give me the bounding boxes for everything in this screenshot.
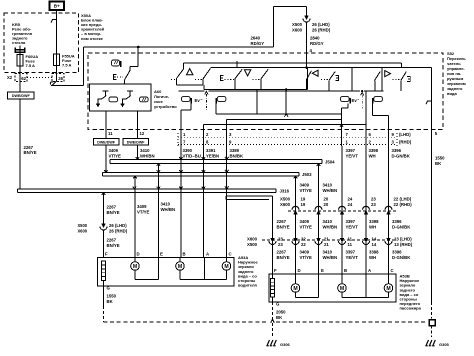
svg-text:3389: 3389 xyxy=(230,148,240,153)
svg-text:3398: 3398 xyxy=(369,219,379,224)
svg-text:M: M xyxy=(340,286,344,292)
svg-text:BN/YE: BN/YE xyxy=(277,224,290,229)
svg-text:3396: 3396 xyxy=(392,219,402,224)
svg-text:M: M xyxy=(293,286,297,292)
svg-text:26 (RHD): 26 (RHD) xyxy=(109,229,128,234)
svg-text:23: 23 xyxy=(278,242,283,247)
svg-text:BN/YE: BN/YE xyxy=(107,243,120,248)
svg-text:A: A xyxy=(206,251,209,256)
svg-text:VT/YE: VT/YE xyxy=(300,224,313,229)
svg-text:VT/D–BU: VT/D–BU xyxy=(183,154,201,159)
svg-text:BK: BK xyxy=(276,315,283,320)
svg-text:22: 22 xyxy=(301,242,306,247)
svg-text:3409: 3409 xyxy=(137,204,147,209)
svg-text:22 (LHD): 22 (LHD) xyxy=(394,197,412,202)
svg-text:X500: X500 xyxy=(247,242,258,247)
svg-text:3396: 3396 xyxy=(392,250,402,255)
svg-text:(LHD): (LHD) xyxy=(399,132,411,137)
svg-text:20: 20 xyxy=(324,202,329,207)
svg-text:Еv: Еv xyxy=(352,98,358,103)
svg-text:X500: X500 xyxy=(292,22,303,27)
svg-text:E: E xyxy=(160,251,163,256)
svg-text:3396: 3396 xyxy=(392,148,402,153)
svg-text:J504: J504 xyxy=(325,160,335,165)
svg-text:2050: 2050 xyxy=(276,310,286,315)
svg-text:D: D xyxy=(137,251,140,256)
svg-text:BK: BK xyxy=(435,161,442,166)
svg-text:2267: 2267 xyxy=(107,238,117,243)
svg-text:3391: 3391 xyxy=(206,148,216,153)
svg-text:YE/VT: YE/VT xyxy=(346,224,359,229)
svg-text:BN/YE: BN/YE xyxy=(277,255,290,260)
svg-text:12: 12 xyxy=(140,131,145,136)
svg-text:2267: 2267 xyxy=(107,205,117,210)
svg-text:ном отсеке: ном отсеке xyxy=(81,36,104,41)
svg-text:3397: 3397 xyxy=(346,148,356,153)
svg-text:3410: 3410 xyxy=(140,148,150,153)
svg-text:2640: 2640 xyxy=(251,36,261,41)
svg-text:X2: X2 xyxy=(7,75,13,80)
svg-text:D-GN/BK: D-GN/BK xyxy=(392,224,411,229)
svg-text:B: B xyxy=(183,251,186,256)
svg-text:14: 14 xyxy=(372,242,377,247)
svg-text:D: D xyxy=(298,268,301,273)
svg-text:M: M xyxy=(178,264,182,270)
svg-text:X600: X600 xyxy=(247,237,258,242)
svg-text:J503: J503 xyxy=(302,172,312,177)
svg-text:3398: 3398 xyxy=(369,250,379,255)
svg-text:VT/YE: VT/YE xyxy=(137,209,150,214)
svg-text:X500: X500 xyxy=(77,223,87,228)
svg-text:WH/BN: WH/BN xyxy=(323,188,338,193)
svg-text:D-GN/BK: D-GN/BK xyxy=(392,255,411,260)
svg-text:WH: WH xyxy=(369,224,376,229)
svg-text:G306: G306 xyxy=(280,342,291,347)
svg-text:J316: J316 xyxy=(280,189,290,194)
svg-text:22: 22 xyxy=(301,237,306,242)
svg-text:F: F xyxy=(105,251,108,256)
svg-text:D-GN/BK: D-GN/BK xyxy=(392,154,411,159)
svg-text:M: M xyxy=(224,264,228,270)
svg-text:3409: 3409 xyxy=(109,148,119,153)
svg-text:RD/GY: RD/GY xyxy=(310,41,324,46)
svg-text:1550: 1550 xyxy=(435,156,445,161)
svg-text:водителя: водителя xyxy=(238,283,258,288)
svg-text:X600: X600 xyxy=(77,229,87,234)
svg-text:YE/VT: YE/VT xyxy=(346,154,359,159)
svg-text:3409: 3409 xyxy=(300,183,310,188)
svg-text:2840: 2840 xyxy=(310,36,320,41)
svg-text:26 (RHD): 26 (RHD) xyxy=(312,28,331,33)
svg-text:C: C xyxy=(229,251,232,256)
svg-text:WH/BN: WH/BN xyxy=(140,154,155,159)
svg-text:B: B xyxy=(344,268,347,273)
svg-text:23: 23 xyxy=(371,202,376,207)
svg-text:пассажира: пассажира xyxy=(400,306,422,311)
svg-text:21: 21 xyxy=(324,237,329,242)
svg-text:WH/BN: WH/BN xyxy=(323,224,338,229)
svg-text:3409: 3409 xyxy=(300,219,310,224)
svg-text:26 (LHD): 26 (LHD) xyxy=(109,223,127,228)
svg-text:A: A xyxy=(368,268,371,273)
svg-text:11: 11 xyxy=(348,237,353,242)
svg-text:стекла: стекла xyxy=(12,40,26,45)
svg-text:BN/BK: BN/BK xyxy=(230,154,245,159)
svg-text:3397: 3397 xyxy=(346,250,356,255)
svg-text:3397: 3397 xyxy=(346,219,356,224)
svg-text:3410: 3410 xyxy=(161,202,171,207)
svg-text:BN/YE: BN/YE xyxy=(107,210,120,215)
svg-text:VT/YE: VT/YE xyxy=(109,154,122,159)
svg-text:DWE/DWF: DWE/DWF xyxy=(12,94,31,98)
svg-text:23: 23 xyxy=(278,237,283,242)
svg-text:X500: X500 xyxy=(280,197,291,202)
svg-text:23: 23 xyxy=(371,197,376,202)
svg-text:BK: BK xyxy=(107,299,114,304)
svg-text:C: C xyxy=(391,268,394,273)
svg-text:22 (RHD): 22 (RHD) xyxy=(394,202,413,207)
svg-text:3398: 3398 xyxy=(369,148,379,153)
svg-text:WH/BN: WH/BN xyxy=(161,207,176,212)
svg-text:3410: 3410 xyxy=(323,183,333,188)
svg-text:13 (RHD): 13 (RHD) xyxy=(394,242,413,247)
svg-text:X600: X600 xyxy=(280,202,291,207)
svg-text:M: M xyxy=(386,286,390,292)
svg-text:(RHD): (RHD) xyxy=(399,140,412,145)
svg-text:26: 26 xyxy=(58,76,63,81)
svg-text:DWE/DWF: DWE/DWF xyxy=(127,141,146,145)
svg-text:вида: вида xyxy=(447,91,457,96)
svg-text:Еv: Еv xyxy=(195,98,201,103)
svg-text:20: 20 xyxy=(324,197,329,202)
svg-text:19: 19 xyxy=(301,197,306,202)
svg-text:WH: WH xyxy=(369,154,376,159)
svg-text:3410: 3410 xyxy=(323,250,333,255)
svg-text:26 (LHD): 26 (LHD) xyxy=(312,22,330,27)
svg-text:24: 24 xyxy=(348,197,353,202)
svg-text:21: 21 xyxy=(324,242,329,247)
svg-text:G305: G305 xyxy=(439,342,450,347)
svg-text:VT/YE: VT/YE xyxy=(300,255,313,260)
svg-text:7.5 A: 7.5 A xyxy=(62,62,72,67)
svg-text:13 (LHD): 13 (LHD) xyxy=(394,237,412,242)
svg-text:1550: 1550 xyxy=(107,294,117,299)
svg-text:2267: 2267 xyxy=(277,250,287,255)
svg-text:WH: WH xyxy=(369,255,376,260)
svg-text:X600: X600 xyxy=(292,28,303,33)
svg-text:11: 11 xyxy=(348,242,353,247)
svg-text:11: 11 xyxy=(108,131,113,136)
svg-text:M: M xyxy=(133,264,137,270)
svg-text:В+: В+ xyxy=(54,4,60,9)
svg-text:14: 14 xyxy=(372,237,377,242)
svg-text:BN/YE: BN/YE xyxy=(24,150,37,155)
svg-text:24: 24 xyxy=(348,202,353,207)
svg-text:VT/YE: VT/YE xyxy=(300,188,313,193)
svg-text:7.5 A: 7.5 A xyxy=(26,63,36,68)
svg-text:WH/BN: WH/BN xyxy=(323,255,338,260)
svg-text:F: F xyxy=(274,268,277,273)
svg-text:3390: 3390 xyxy=(183,148,193,153)
svg-text:19: 19 xyxy=(301,202,306,207)
svg-text:DWE/DWF: DWE/DWF xyxy=(97,141,116,145)
svg-text:YE/BN: YE/BN xyxy=(206,154,219,159)
svg-text:2267: 2267 xyxy=(277,219,287,224)
svg-text:62: 62 xyxy=(21,76,26,81)
svg-text:устройство: устройство xyxy=(154,104,177,109)
svg-text:3409: 3409 xyxy=(300,250,310,255)
svg-text:E: E xyxy=(321,268,324,273)
svg-text:3410: 3410 xyxy=(323,219,333,224)
svg-text:YE/VT: YE/VT xyxy=(346,255,359,260)
svg-text:RD/GY: RD/GY xyxy=(251,41,265,46)
